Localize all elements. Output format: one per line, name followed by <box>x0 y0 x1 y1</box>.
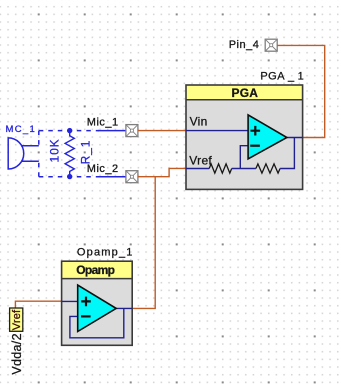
node junction top <box>67 128 72 133</box>
svg-text:PGA_1: PGA_1 <box>260 70 304 82</box>
wire branch to Opamp output <box>133 177 156 309</box>
svg-text:Pin_4: Pin_4 <box>229 39 260 51</box>
Opamp title bar <box>62 261 133 278</box>
op-amp block Opamp_1 <box>62 247 134 346</box>
svg-text:Mic_1: Mic_1 <box>87 116 119 128</box>
wire Vref terminal to Opamp input <box>15 301 61 308</box>
wire Opamp output internal <box>116 307 132 309</box>
wire PGA output <box>287 137 303 139</box>
minus sign <box>81 315 91 317</box>
terminal Mic_1 <box>126 125 138 137</box>
terminal Mic_2 <box>126 171 138 183</box>
wire feedback loop <box>70 308 124 337</box>
wire noninverting input internal <box>62 300 78 302</box>
wire Mic_1 to PGA Vin <box>138 130 186 132</box>
wire Pin_4 to PGA output <box>277 45 325 137</box>
wire Vin internal <box>186 130 248 132</box>
microphone MC_1 <box>8 138 39 169</box>
op-amp triangle U Opamp <box>78 285 117 331</box>
node junction bottom <box>67 174 72 179</box>
PGA body <box>186 85 303 189</box>
minus sign <box>250 145 260 147</box>
svg-text:Opamp: Opamp <box>76 263 114 277</box>
wire solid to Mic_2 terminal <box>98 176 126 178</box>
plus sign <box>81 297 91 307</box>
svg-text:PGA: PGA <box>231 86 258 100</box>
wire dashed mic upper <box>38 131 40 146</box>
wire Vref internal <box>186 168 209 170</box>
wire feedback right <box>280 138 294 169</box>
resistor Rfb (PGA) <box>256 164 280 173</box>
svg-text:Vref: Vref <box>189 153 212 167</box>
wire resistor junction <box>232 168 256 170</box>
svg-text:Vref: Vref <box>11 309 23 330</box>
svg-text:10K: 10K <box>47 138 61 162</box>
resistor Rin (PGA) <box>209 164 231 173</box>
terminal Pin_4 <box>265 39 277 51</box>
wire Mic_2 to PGA Vref <box>138 168 186 176</box>
svg-text:Vin: Vin <box>190 114 208 128</box>
op-amp block PGA_1 <box>186 70 304 189</box>
terminal Vref (yellow) <box>10 308 23 331</box>
svg-text:MC_1: MC_1 <box>6 124 37 135</box>
svg-text:Vdda/2: Vdda/2 <box>10 333 24 374</box>
svg-text:Opamp_1: Opamp_1 <box>77 247 134 259</box>
op-amp triangle U PGA <box>248 115 287 159</box>
wire inverting input <box>240 146 248 169</box>
wire dashed mic lower <box>38 161 40 177</box>
svg-text:Mic_2: Mic_2 <box>87 163 119 175</box>
Opamp body <box>62 261 133 345</box>
PGA title bar <box>186 85 303 100</box>
svg-text:R_1: R_1 <box>78 140 92 165</box>
resistor R_1 <box>65 131 74 177</box>
plus sign <box>251 126 261 136</box>
wire solid to Mic_1 terminal <box>98 130 126 132</box>
